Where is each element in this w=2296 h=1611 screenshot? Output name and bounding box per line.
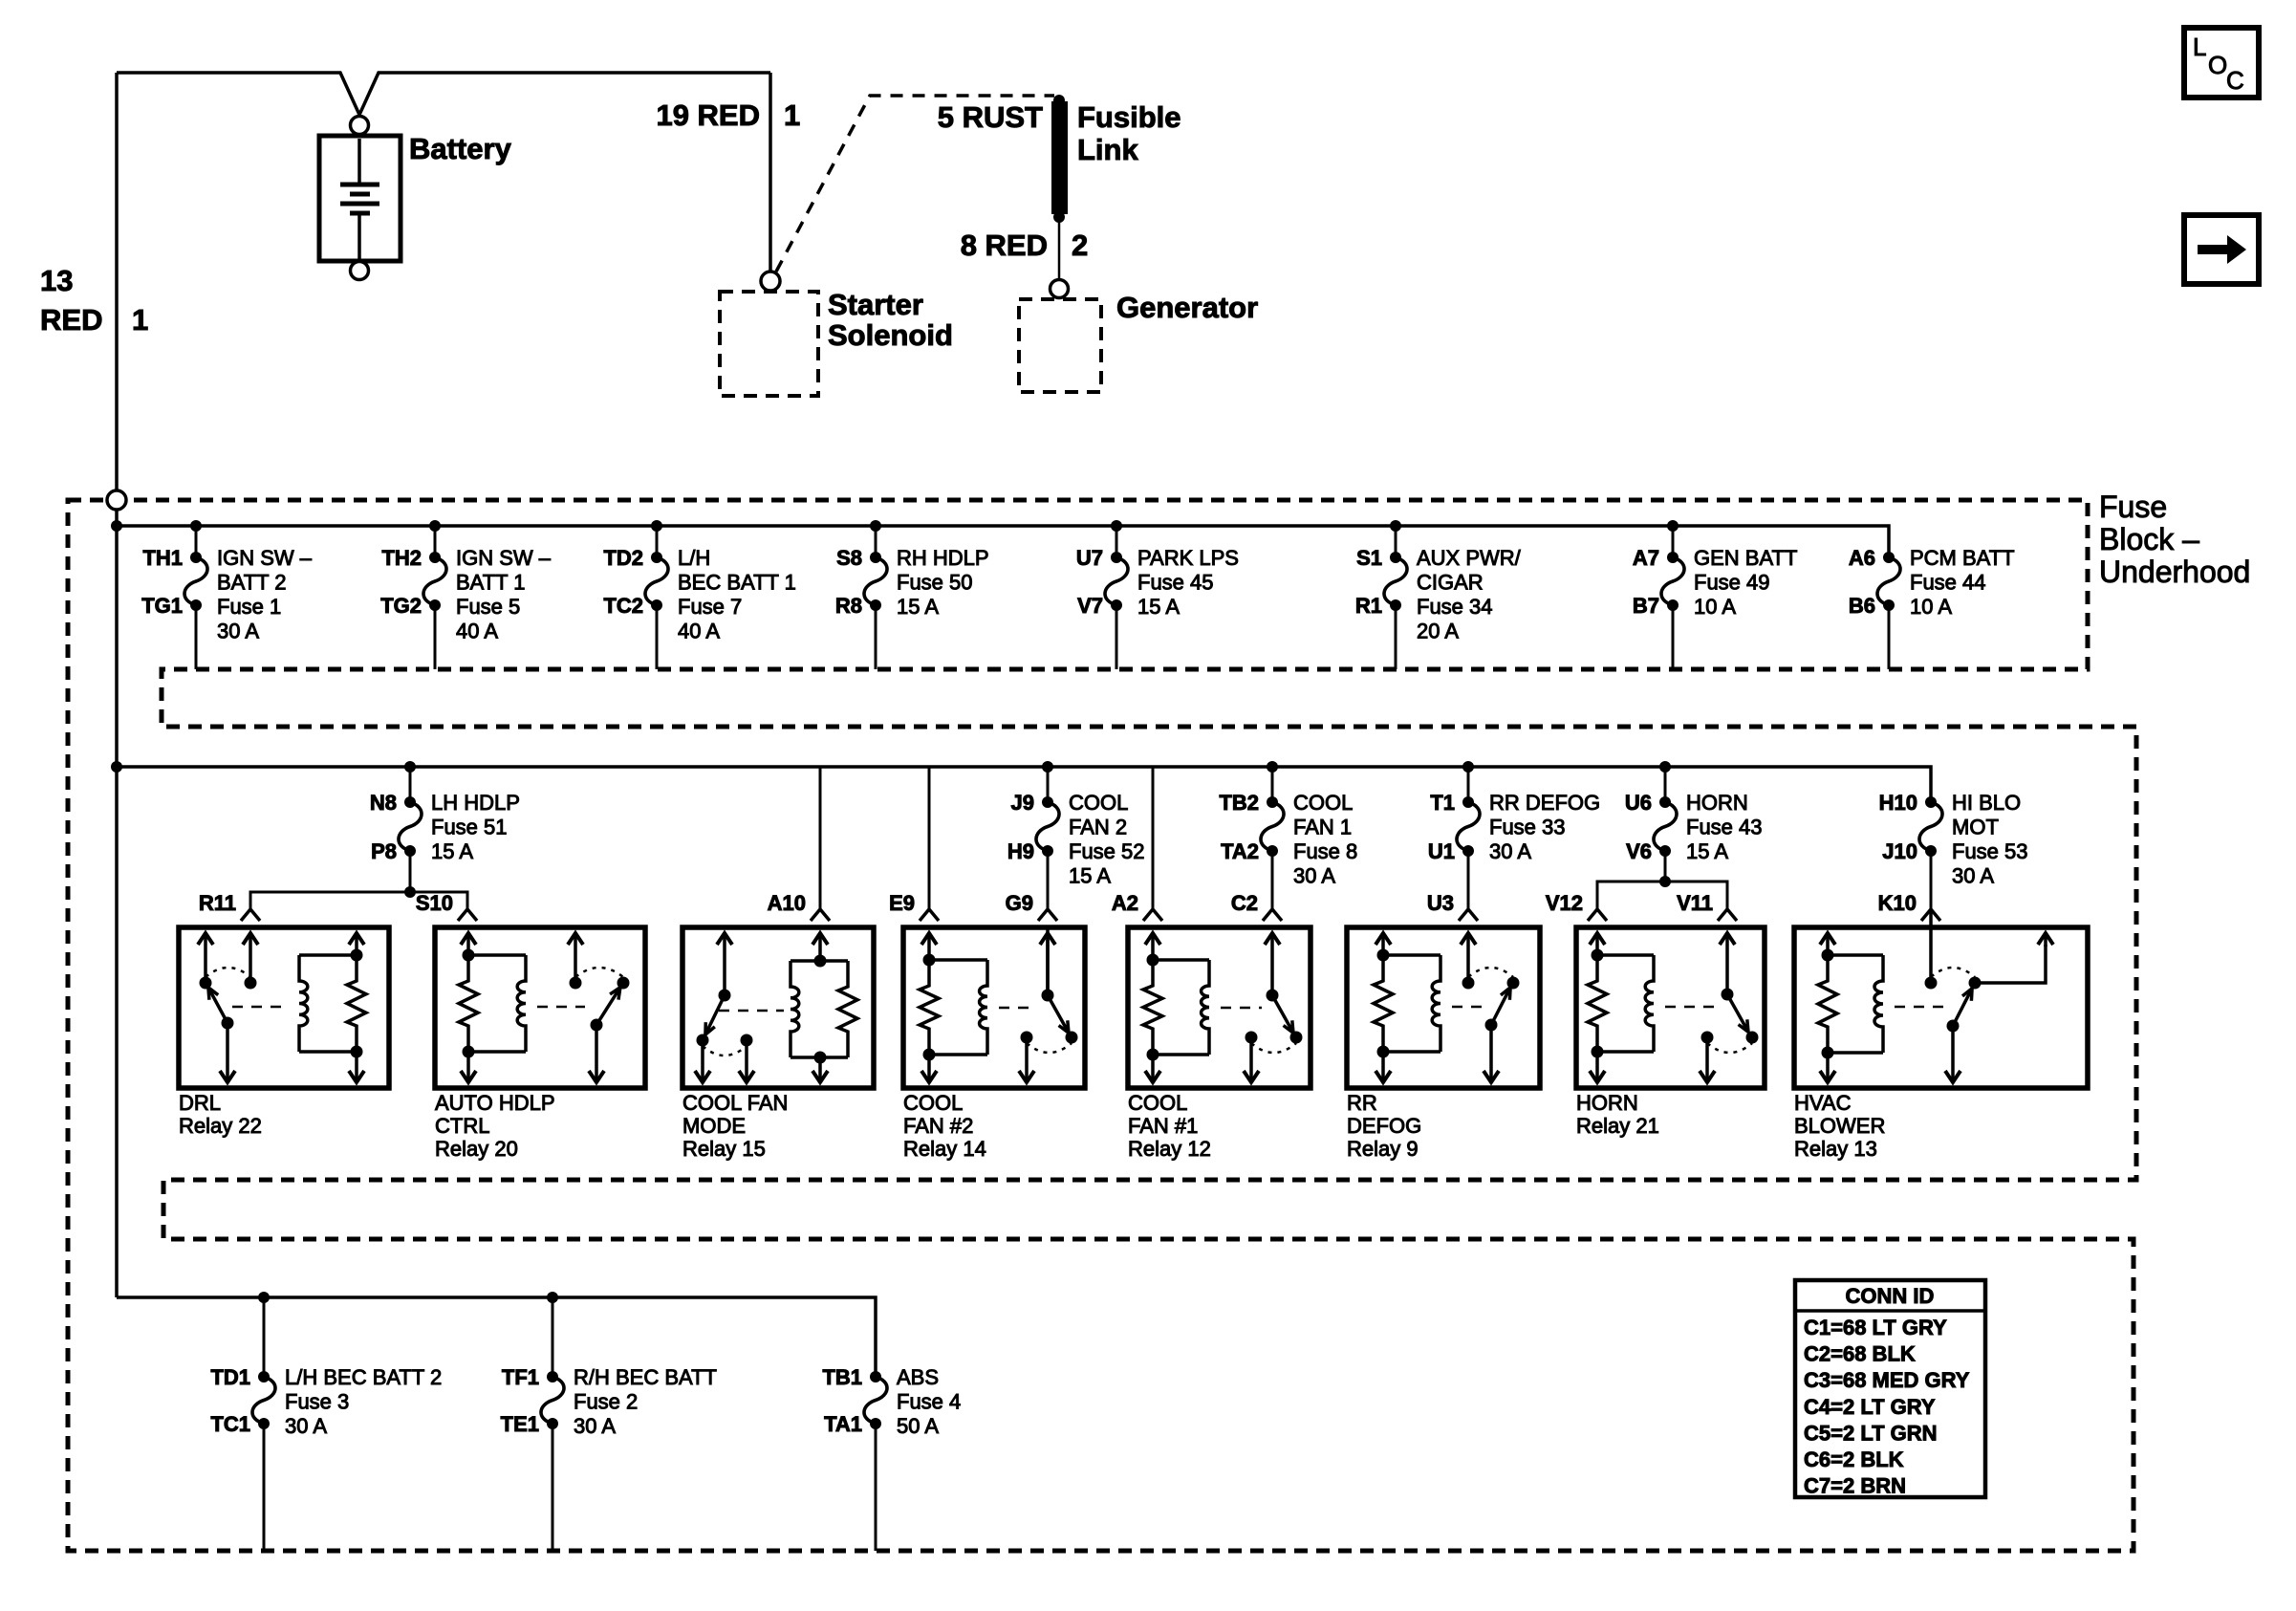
terminal dot TE1 bbox=[547, 1418, 558, 1429]
wire: Fuse 1 output tail bbox=[195, 605, 198, 669]
svg-text:C: C bbox=[2226, 66, 2244, 95]
svg-text:TC1: TC1 bbox=[210, 1412, 250, 1436]
terminal dot TB1 bbox=[870, 1371, 881, 1382]
terminal dot R8 bbox=[870, 599, 881, 611]
svg-text:Fuse 53: Fuse 53 bbox=[1952, 839, 2028, 863]
terminal dot TG2 bbox=[429, 599, 441, 611]
wire: fuse 43 output branch to V12 and V11 bbox=[1597, 876, 1727, 908]
Fuse 2 element symbol bbox=[541, 1377, 564, 1424]
svg-text:LH HDLP: LH HDLP bbox=[431, 791, 520, 815]
svg-text:Relay 13: Relay 13 bbox=[1794, 1137, 1877, 1161]
wire: feed stub to Fuse 49 bbox=[1672, 526, 1675, 557]
svg-text:40 A: 40 A bbox=[678, 620, 720, 643]
terminal dot S1 bbox=[1390, 552, 1401, 563]
Fuse 7 element symbol bbox=[645, 557, 668, 605]
relay box COOL FAN #2 Relay 14 bbox=[903, 927, 1085, 1088]
svg-text:P8: P8 bbox=[371, 839, 397, 863]
svg-text:C4=2 LT GRY: C4=2 LT GRY bbox=[1804, 1395, 1936, 1419]
svg-text:HORN: HORN bbox=[1686, 791, 1748, 815]
svg-text:15 A: 15 A bbox=[1137, 595, 1180, 619]
fuse Fuse 8: terminals TB2/TA2 bbox=[1219, 767, 1357, 908]
wire: Fuse 45 output tail bbox=[1116, 605, 1118, 669]
terminal dot T1 bbox=[1462, 796, 1474, 808]
wire: Fuse 33 output tail bbox=[1467, 851, 1470, 908]
svg-text:TH2: TH2 bbox=[381, 546, 422, 570]
wire: Fuse 34 output tail bbox=[1395, 605, 1397, 669]
relay 12 switch bbox=[1221, 933, 1303, 1082]
svg-text:C2: C2 bbox=[1231, 891, 1258, 915]
svg-text:5 RUST: 5 RUST bbox=[938, 100, 1043, 134]
label: DRL Relay 22 bbox=[179, 1091, 262, 1138]
label: RR DEFOG Relay 9 bbox=[1347, 1091, 1421, 1161]
relay 20 coil and resistor bbox=[459, 933, 526, 1082]
svg-text:PARK LPS: PARK LPS bbox=[1137, 546, 1239, 570]
terminal dot R1 bbox=[1390, 599, 1401, 611]
terminal dot TC1 bbox=[258, 1418, 270, 1429]
Fuse 3 element symbol bbox=[252, 1377, 275, 1424]
terminal dot TF1 bbox=[547, 1371, 558, 1382]
wire: Fuse 4 output tail bbox=[875, 1424, 877, 1551]
junction on bus 2 at J9 column bbox=[1042, 761, 1053, 773]
svg-text:RH HDLP: RH HDLP bbox=[897, 546, 989, 570]
svg-text:COOL FAN: COOL FAN bbox=[682, 1091, 788, 1115]
wire: 13 RED trunk from battery feed down left side bbox=[115, 73, 119, 1297]
svg-text:1: 1 bbox=[132, 303, 148, 337]
Fuse 34 element symbol bbox=[1384, 557, 1407, 605]
svg-text:H9: H9 bbox=[1007, 839, 1034, 863]
relay 12 coil and resistor bbox=[1143, 933, 1209, 1082]
terminal dot A7 bbox=[1667, 552, 1679, 563]
svg-text:FAN 2: FAN 2 bbox=[1069, 816, 1127, 839]
svg-text:A2: A2 bbox=[1112, 891, 1138, 915]
label: Fusible Link bbox=[1077, 100, 1181, 166]
fuse Fuse 53: terminals H10/J10 bbox=[1879, 791, 2028, 908]
label: Starter Solenoid bbox=[828, 288, 953, 352]
terminal dot TD1 bbox=[258, 1371, 270, 1382]
relay 21 switch bbox=[1665, 933, 1759, 1082]
junction on bus 1 at S8 column bbox=[870, 520, 881, 532]
Fuse 53 element symbol bbox=[1919, 802, 1942, 851]
wire: feed stub to Fuse 53 bbox=[1930, 801, 1933, 804]
svg-text:1: 1 bbox=[784, 98, 800, 132]
junction on bus 1 at TD2 column bbox=[651, 520, 662, 532]
connector G9 bbox=[1006, 891, 1057, 921]
svg-text:30 A: 30 A bbox=[1293, 864, 1335, 888]
LOC reference icon bbox=[2184, 28, 2259, 98]
svg-text:Fuse: Fuse bbox=[2099, 490, 2167, 524]
fuse Fuse 33: terminals T1/U1 bbox=[1428, 767, 1600, 908]
fuse block underhood dashed outline bbox=[68, 500, 2136, 1551]
connector A2 bbox=[1152, 767, 1155, 908]
svg-text:Starter: Starter bbox=[828, 288, 923, 321]
svg-text:40 A: 40 A bbox=[456, 620, 498, 643]
battery B+ terminal circle bbox=[351, 117, 369, 135]
terminal dot V6 bbox=[1659, 845, 1671, 857]
svg-text:BEC BATT 1: BEC BATT 1 bbox=[678, 571, 796, 595]
relay box HORN Relay 21 bbox=[1576, 927, 1765, 1088]
svg-text:C6=2 BLK: C6=2 BLK bbox=[1804, 1448, 1904, 1471]
terminal dot U1 bbox=[1462, 845, 1474, 857]
svg-text:N8: N8 bbox=[370, 791, 397, 815]
relay box DRL Relay 22 bbox=[179, 927, 389, 1088]
svg-text:U7: U7 bbox=[1076, 546, 1103, 570]
wire: Fuse 53 output tail bbox=[1930, 851, 1933, 908]
svg-text:TG1: TG1 bbox=[141, 594, 183, 618]
fusible link bbox=[1051, 95, 1068, 223]
wire: feed stub to Fuse 50 bbox=[875, 526, 877, 557]
label: 19 RED circuit bbox=[656, 98, 800, 132]
svg-text:RED: RED bbox=[40, 303, 102, 337]
terminal dot P8 bbox=[404, 845, 416, 857]
connector S10 bbox=[416, 891, 477, 921]
svg-text:Fuse 33: Fuse 33 bbox=[1489, 816, 1566, 839]
svg-text:V7: V7 bbox=[1077, 594, 1103, 618]
wire: Fuse 51 output tail bbox=[409, 851, 412, 892]
relay 13 coil and resistor bbox=[1818, 933, 1883, 1082]
Fuse 44 element symbol bbox=[1877, 557, 1900, 605]
label: 5 RUST circuit bbox=[938, 100, 1043, 134]
fuse Fuse 49: terminals A7/B7 bbox=[1633, 526, 1798, 669]
terminal dot N8 bbox=[404, 796, 416, 808]
wire: feed stub to Fuse 44 bbox=[1888, 556, 1891, 559]
junction on bus 1 at U7 column bbox=[1111, 520, 1122, 532]
svg-text:BATT 2: BATT 2 bbox=[217, 571, 287, 595]
terminal dot TG1 bbox=[190, 599, 202, 611]
fuse Fuse 43: terminals U6/V6 bbox=[1625, 767, 1763, 882]
svg-text:20 A: 20 A bbox=[1417, 620, 1459, 643]
connector A10 bbox=[768, 891, 830, 921]
fuse Fuse 5: terminals TH2/TG2 bbox=[380, 526, 552, 669]
label: Fuse Block - Underhood bbox=[2099, 490, 2250, 589]
svg-text:Link: Link bbox=[1077, 133, 1138, 166]
label: Generator bbox=[1116, 291, 1258, 324]
svg-text:TA2: TA2 bbox=[1221, 839, 1259, 863]
Fuse 1 element symbol bbox=[184, 557, 207, 605]
label: HORN Relay 21 bbox=[1576, 1091, 1659, 1138]
relay 21 coil and resistor bbox=[1588, 933, 1654, 1082]
svg-text:Fuse 45: Fuse 45 bbox=[1137, 571, 1214, 595]
svg-text:TH1: TH1 bbox=[142, 546, 183, 570]
svg-text:RR: RR bbox=[1347, 1091, 1377, 1115]
starter solenoid terminal circle bbox=[761, 272, 780, 291]
svg-text:30 A: 30 A bbox=[574, 1414, 616, 1438]
wire: feed stub to Fuse 4 bbox=[875, 1376, 877, 1379]
junction on bus 2 at TB2 column bbox=[1267, 761, 1278, 773]
Fuse 51 element symbol bbox=[399, 802, 422, 851]
connector V12 bbox=[1546, 889, 1607, 921]
svg-text:COOL: COOL bbox=[903, 1091, 963, 1115]
label: COOL FAN MODE Relay 15 bbox=[682, 1091, 788, 1161]
svg-text:TG2: TG2 bbox=[380, 594, 422, 618]
Fuse 5 element symbol bbox=[423, 557, 446, 605]
connector circle at fuse block boundary bbox=[107, 490, 126, 510]
relay 14 coil and resistor bbox=[920, 933, 987, 1082]
connector K10 bbox=[1878, 891, 1940, 921]
wire: Fuse 50 output tail bbox=[875, 605, 877, 669]
connector U3 bbox=[1427, 891, 1478, 921]
svg-text:COOL: COOL bbox=[1069, 791, 1128, 815]
terminal dot J9 bbox=[1042, 796, 1053, 808]
svg-text:Fusible: Fusible bbox=[1077, 100, 1181, 134]
svg-text:Relay 15: Relay 15 bbox=[682, 1137, 766, 1161]
label: COOL FAN #2 Relay 14 bbox=[903, 1091, 986, 1161]
wire: battery top feed with V-dip to battery positive bbox=[117, 73, 770, 115]
wire: feed stub to Fuse 52 bbox=[1047, 767, 1050, 802]
relay box HVAC BLOWER Relay 13 bbox=[1794, 927, 2088, 1088]
wire: Fuse 44 output tail bbox=[1888, 605, 1891, 669]
svg-text:Generator: Generator bbox=[1116, 291, 1258, 324]
wire: fuse 51 output branch to R11 and S10 bbox=[250, 886, 467, 908]
svg-text:S10: S10 bbox=[416, 891, 453, 915]
svg-text:B7: B7 bbox=[1633, 594, 1659, 618]
svg-text:TD2: TD2 bbox=[603, 546, 643, 570]
svg-text:A10: A10 bbox=[768, 891, 806, 915]
svg-text:8 RED: 8 RED bbox=[961, 229, 1048, 262]
connector R11 bbox=[199, 891, 260, 921]
svg-text:FAN #2: FAN #2 bbox=[903, 1114, 973, 1138]
svg-text:V11: V11 bbox=[1677, 891, 1713, 915]
svg-text:C1=68 LT GRY: C1=68 LT GRY bbox=[1804, 1316, 1947, 1339]
fuse Fuse 4: terminals TB1/TA1 bbox=[822, 1365, 961, 1551]
wire: lower battery feed trunk bbox=[117, 1292, 876, 1377]
svg-text:Fuse 4: Fuse 4 bbox=[897, 1390, 961, 1414]
svg-text:O: O bbox=[2208, 51, 2227, 79]
svg-text:15 A: 15 A bbox=[897, 595, 939, 619]
wire: Fuse 52 output tail bbox=[1047, 851, 1050, 908]
wire: dashed link starter solenoid to fusible link bbox=[776, 96, 1054, 272]
svg-text:PCM BATT: PCM BATT bbox=[1910, 546, 2015, 570]
svg-text:Fuse 2: Fuse 2 bbox=[574, 1390, 638, 1414]
svg-text:30 A: 30 A bbox=[217, 620, 259, 643]
svg-text:Battery: Battery bbox=[409, 132, 512, 165]
terminal dot TC2 bbox=[651, 599, 662, 611]
terminal dot TB2 bbox=[1267, 796, 1278, 808]
svg-text:Fuse 44: Fuse 44 bbox=[1910, 571, 1986, 595]
wire: battery feed bus row 2 bbox=[111, 761, 1931, 802]
svg-text:E9: E9 bbox=[889, 891, 915, 915]
Fuse 45 element symbol bbox=[1105, 557, 1128, 605]
terminal dot V7 bbox=[1111, 599, 1122, 611]
terminal dot H9 bbox=[1042, 845, 1053, 857]
svg-text:S8: S8 bbox=[836, 546, 862, 570]
wire: feed stub to Fuse 51 bbox=[409, 767, 412, 802]
connector E9 bbox=[889, 891, 939, 921]
svg-text:GEN BATT: GEN BATT bbox=[1694, 546, 1797, 570]
junction on bus 1 at S1 column bbox=[1390, 520, 1401, 532]
svg-text:Fuse 8: Fuse 8 bbox=[1293, 839, 1357, 863]
wire: Fuse 2 output tail bbox=[552, 1424, 554, 1551]
generator terminal circle bbox=[1051, 280, 1069, 298]
svg-text:MODE: MODE bbox=[682, 1114, 746, 1138]
Fuse 49 element symbol bbox=[1661, 557, 1684, 605]
svg-text:ABS: ABS bbox=[897, 1365, 939, 1389]
junction on bus 1 at TH2 column bbox=[429, 520, 441, 532]
svg-text:G9: G9 bbox=[1006, 891, 1033, 915]
terminal dot B6 bbox=[1883, 599, 1895, 611]
svg-text:HORN: HORN bbox=[1576, 1091, 1638, 1115]
relay 22 coil and resistor bbox=[299, 933, 366, 1082]
svg-text:A6: A6 bbox=[1849, 546, 1875, 570]
svg-text:J10: J10 bbox=[1882, 839, 1917, 863]
svg-text:TF1: TF1 bbox=[502, 1365, 539, 1389]
wire: Fuse 5 output tail bbox=[434, 605, 437, 669]
svg-text:Fuse 51: Fuse 51 bbox=[431, 816, 508, 839]
svg-text:Fuse 7: Fuse 7 bbox=[678, 595, 742, 619]
fuse Fuse 34: terminals S1/R1 bbox=[1355, 526, 1522, 669]
svg-text:U6: U6 bbox=[1625, 791, 1652, 815]
svg-text:Underhood: Underhood bbox=[2099, 555, 2250, 589]
terminal dot TD2 bbox=[651, 552, 662, 563]
wire: bus 2 drop to A10 bbox=[819, 767, 822, 908]
svg-text:T1: T1 bbox=[1430, 791, 1455, 815]
svg-text:2: 2 bbox=[1072, 229, 1088, 262]
Fuse 4 element symbol bbox=[864, 1377, 887, 1424]
fuse Fuse 44: terminals A6/B6 bbox=[1849, 546, 2015, 669]
svg-text:50 A: 50 A bbox=[897, 1414, 939, 1438]
terminal dot J10 bbox=[1925, 845, 1937, 857]
junction on bus 2 at T1 column bbox=[1462, 761, 1474, 773]
wire: feed stub to Fuse 7 bbox=[656, 526, 659, 557]
svg-text:FAN #1: FAN #1 bbox=[1128, 1114, 1198, 1138]
Fuse 33 element symbol bbox=[1457, 802, 1480, 851]
svg-text:10 A: 10 A bbox=[1910, 595, 1952, 619]
svg-text:Fuse 49: Fuse 49 bbox=[1694, 571, 1770, 595]
svg-text:13: 13 bbox=[40, 264, 73, 297]
junction on bus 2 at N8 column bbox=[404, 761, 416, 773]
svg-text:30 A: 30 A bbox=[1489, 839, 1531, 863]
terminal dot H10 bbox=[1925, 796, 1937, 808]
CONN ID table bbox=[1795, 1280, 1985, 1498]
svg-text:C3=68 MED GRY: C3=68 MED GRY bbox=[1804, 1368, 1970, 1392]
junction on bus 2 at U6 column bbox=[1659, 761, 1671, 773]
fuse Fuse 7: terminals TD2/TC2 bbox=[603, 526, 795, 669]
svg-text:A7: A7 bbox=[1633, 546, 1659, 570]
label: HVAC BLOWER Relay 13 bbox=[1794, 1091, 1885, 1161]
relay box COOL FAN MODE Relay 15 bbox=[682, 927, 874, 1088]
wire: Fuse 43 output tail bbox=[1664, 851, 1667, 882]
junction on bus 1 at A7 column bbox=[1667, 520, 1679, 532]
svg-text:TE1: TE1 bbox=[501, 1412, 539, 1436]
svg-text:V12: V12 bbox=[1546, 891, 1583, 915]
svg-text:HVAC: HVAC bbox=[1794, 1091, 1852, 1115]
svg-text:RR DEFOG: RR DEFOG bbox=[1489, 791, 1600, 815]
wire: feed stub to Fuse 1 bbox=[195, 526, 198, 557]
svg-text:COOL: COOL bbox=[1128, 1091, 1187, 1115]
label: AUTO HDLP CTRL Relay 20 bbox=[435, 1091, 555, 1161]
svg-text:K10: K10 bbox=[1878, 891, 1917, 915]
fuse Fuse 3: terminals TD1/TC1 bbox=[210, 1297, 442, 1551]
wire: 8 RED to generator bbox=[1058, 217, 1061, 279]
svg-text:CONN ID: CONN ID bbox=[1846, 1284, 1935, 1308]
svg-text:TA1: TA1 bbox=[824, 1412, 862, 1436]
svg-text:IGN SW –: IGN SW – bbox=[456, 546, 552, 570]
svg-text:IGN SW –: IGN SW – bbox=[217, 546, 313, 570]
svg-text:L/H BEC BATT 2: L/H BEC BATT 2 bbox=[285, 1365, 442, 1389]
relay 9 switch bbox=[1452, 933, 1520, 1082]
relay 14 switch bbox=[999, 927, 1078, 1082]
Fuse 52 element symbol bbox=[1036, 802, 1059, 851]
svg-text:R11: R11 bbox=[199, 891, 236, 915]
svg-text:COOL: COOL bbox=[1293, 791, 1353, 815]
svg-text:R1: R1 bbox=[1355, 594, 1382, 618]
terminal dot TH2 bbox=[429, 552, 441, 563]
label: 8 RED circuit bbox=[961, 229, 1089, 262]
fuse Fuse 1: terminals TH1/TG1 bbox=[141, 526, 313, 669]
Fuse 8 element symbol bbox=[1261, 802, 1284, 851]
wire: feed stub to Fuse 5 bbox=[434, 526, 437, 557]
terminal dot TA1 bbox=[870, 1418, 881, 1429]
svg-text:AUX PWR/: AUX PWR/ bbox=[1417, 546, 1522, 570]
svg-text:Fuse 3: Fuse 3 bbox=[285, 1390, 349, 1414]
svg-text:TB1: TB1 bbox=[822, 1365, 862, 1389]
svg-text:30 A: 30 A bbox=[285, 1414, 327, 1438]
svg-text:L: L bbox=[2193, 33, 2206, 61]
terminal dot TA2 bbox=[1267, 845, 1278, 857]
svg-text:U3: U3 bbox=[1427, 891, 1454, 915]
svg-text:Fuse 34: Fuse 34 bbox=[1417, 595, 1493, 619]
svg-text:R/H BEC BATT: R/H BEC BATT bbox=[574, 1365, 717, 1389]
wire: feed stub to Fuse 3 bbox=[263, 1297, 266, 1377]
svg-text:BATT 1: BATT 1 bbox=[456, 571, 526, 595]
fuse Fuse 45: terminals U7/V7 bbox=[1076, 526, 1239, 669]
svg-text:H10: H10 bbox=[1879, 791, 1917, 815]
wire: feed stub to Fuse 33 bbox=[1467, 767, 1470, 802]
svg-text:15 A: 15 A bbox=[1069, 864, 1111, 888]
fuse Fuse 52: terminals J9/H9 bbox=[1007, 767, 1145, 908]
terminal dot TH1 bbox=[190, 552, 202, 563]
wire: bus 2 drop to E9 bbox=[928, 767, 931, 908]
svg-text:TD1: TD1 bbox=[210, 1365, 250, 1389]
wire: feed stub to Fuse 45 bbox=[1116, 526, 1118, 557]
Fuse 43 element symbol bbox=[1654, 802, 1677, 851]
terminal dot S8 bbox=[870, 552, 881, 563]
label: Battery bbox=[409, 132, 512, 165]
svg-text:FAN 1: FAN 1 bbox=[1293, 816, 1352, 839]
label: COOL FAN #1 Relay 12 bbox=[1128, 1091, 1211, 1161]
svg-text:L/H: L/H bbox=[678, 546, 710, 570]
wire: feed stub to Fuse 8 bbox=[1271, 767, 1274, 802]
svg-text:15 A: 15 A bbox=[431, 839, 473, 863]
relay 22 switch bbox=[198, 933, 287, 1082]
fuse Fuse 51: terminals N8/P8 bbox=[370, 767, 520, 892]
svg-text:Relay 20: Relay 20 bbox=[435, 1137, 518, 1161]
relay 9 coil and resistor bbox=[1374, 933, 1440, 1082]
relay box RR DEFOG Relay 9 bbox=[1347, 927, 1540, 1088]
wire: feed stub to Fuse 43 bbox=[1664, 767, 1667, 802]
svg-text:Relay 22: Relay 22 bbox=[179, 1114, 262, 1138]
wire: Fuse 7 output tail bbox=[656, 605, 659, 669]
svg-text:Block –: Block – bbox=[2099, 522, 2199, 556]
wire: 19 RED to starter solenoid bbox=[769, 73, 772, 272]
wire: Fuse 49 output tail bbox=[1672, 605, 1675, 669]
terminal dot B7 bbox=[1667, 599, 1679, 611]
generator bbox=[1019, 299, 1101, 392]
svg-text:J9: J9 bbox=[1011, 791, 1034, 815]
svg-text:Relay 12: Relay 12 bbox=[1128, 1137, 1211, 1161]
relay 20 switch bbox=[537, 933, 630, 1082]
wire: Fuse 3 output tail bbox=[263, 1424, 266, 1551]
terminal dot U7 bbox=[1111, 552, 1122, 563]
svg-text:Relay 14: Relay 14 bbox=[903, 1137, 986, 1161]
Fuse 50 element symbol bbox=[864, 557, 887, 605]
svg-text:Fuse 52: Fuse 52 bbox=[1069, 839, 1145, 863]
battery bbox=[319, 136, 401, 261]
svg-text:TC2: TC2 bbox=[603, 594, 643, 618]
connector C2 bbox=[1231, 891, 1282, 921]
svg-text:R8: R8 bbox=[835, 594, 862, 618]
connector V11 bbox=[1677, 889, 1737, 921]
svg-text:BLOWER: BLOWER bbox=[1794, 1114, 1885, 1138]
